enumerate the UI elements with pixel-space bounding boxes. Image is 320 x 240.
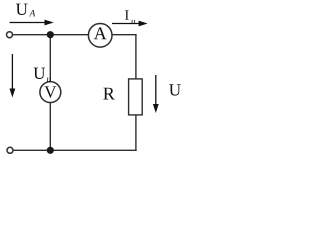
label I_u subscript u — [131, 20, 135, 24]
wire top-left horizontal — [13, 34, 89, 36]
resistor label R — [103, 88, 114, 100]
label U_u subscript u — [47, 78, 51, 82]
wire bottom horizontal — [14, 149, 137, 151]
node junction top — [47, 31, 54, 38]
arrow I_u (top-right, right-pointing) — [112, 21, 148, 27]
arrow U_u (left side, down-pointing) — [10, 54, 16, 98]
wire left vertical upper — [49, 35, 51, 82]
resistor R body — [129, 79, 143, 115]
wire right vertical lower — [135, 115, 137, 151]
wire top-right horizontal — [112, 34, 137, 36]
label U_A subscript A — [29, 10, 35, 16]
ammeter label A — [94, 27, 107, 39]
label U (across R) — [169, 84, 181, 95]
label I_u letter I — [125, 10, 129, 19]
wire left vertical lower — [49, 102, 51, 150]
label U_u letter U — [34, 68, 46, 79]
terminal bottom-left — [7, 147, 13, 153]
voltmeter circle — [40, 82, 61, 103]
arrow U_A (top-left, right-pointing) — [10, 20, 54, 26]
ammeter circle — [88, 24, 112, 48]
voltmeter label V — [44, 86, 56, 97]
node junction bottom — [47, 147, 54, 154]
terminal top-left — [7, 32, 13, 38]
arrow U (right of resistor, down-pointing) — [153, 75, 159, 113]
label U_A letter U — [16, 4, 28, 15]
wire right vertical upper — [135, 34, 137, 79]
